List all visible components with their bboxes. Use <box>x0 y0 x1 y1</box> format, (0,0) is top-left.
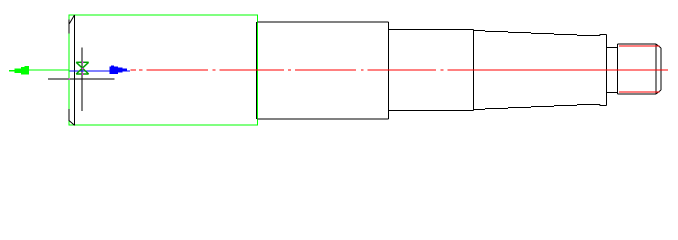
right end face <box>660 48 662 90</box>
taper top line <box>474 31 601 36</box>
left chamfer edge line <box>74 15 76 125</box>
face line section2/section3 <box>388 22 390 119</box>
thread outline <box>618 44 657 94</box>
thread chamfer edge line <box>655 44 657 94</box>
start point marker (green bowtie) <box>76 62 88 74</box>
point marker cross horizontal <box>48 78 115 80</box>
thread start face line <box>617 44 619 94</box>
green arrow shaft <box>29 69 69 71</box>
face line section1/section2 <box>256 22 258 119</box>
thread minor diameter line top (red) <box>619 45 660 47</box>
left chamfer diagonal bottom <box>69 121 74 126</box>
left end face (black segments over green edge) <box>68 20 70 122</box>
centerline (red dash-dot) <box>131 69 669 71</box>
collar face line <box>606 35 608 106</box>
thread end chamfer top <box>656 44 661 48</box>
collar step top <box>600 35 607 36</box>
blue arrow shaft <box>70 70 131 72</box>
section 2 outline <box>258 22 389 119</box>
left chamfer diagonal top <box>69 15 74 24</box>
point marker cross vertical <box>81 48 83 111</box>
taper bottom line <box>474 105 601 110</box>
section 3 outline <box>389 30 474 111</box>
stock rectangle (selected, green) <box>69 15 258 125</box>
face line section3/taper <box>473 30 475 111</box>
neck outline <box>607 48 618 93</box>
thread minor diameter line bottom (red) <box>619 91 660 93</box>
xor magenta pixels <box>69 62 84 80</box>
green arrow head (points left) <box>9 66 29 74</box>
collar step bottom <box>600 105 607 106</box>
blue arrow head (points right) <box>110 66 128 75</box>
thread end chamfer bottom <box>656 90 661 94</box>
